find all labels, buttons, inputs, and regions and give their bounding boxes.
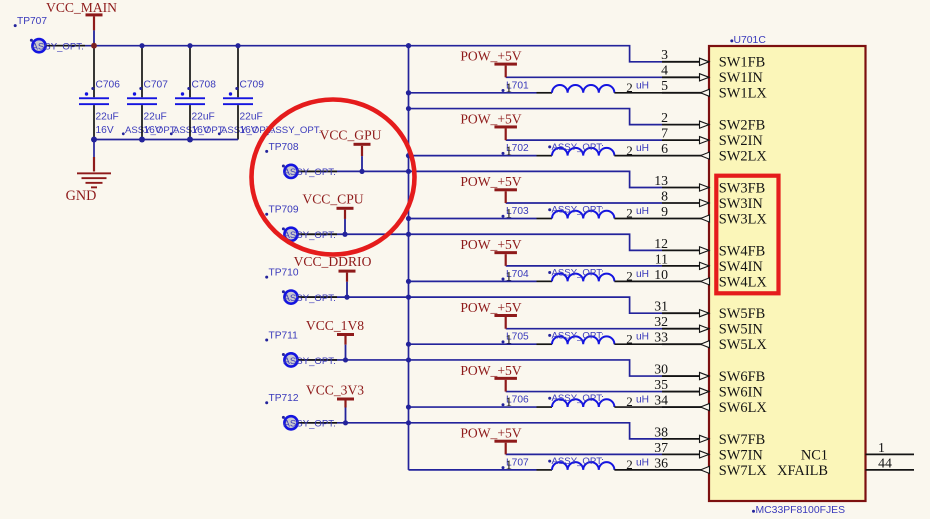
svg-text:7: 7 xyxy=(661,126,668,141)
svg-text:SW3FB: SW3FB xyxy=(719,180,765,196)
svg-text:33: 33 xyxy=(654,330,668,345)
svg-text:22uF: 22uF xyxy=(240,112,263,123)
svg-text:SW3LX: SW3LX xyxy=(719,211,768,227)
svg-text:TP710: TP710 xyxy=(269,268,299,279)
svg-text:22uF: 22uF xyxy=(192,112,215,123)
svg-text:12: 12 xyxy=(654,236,668,251)
svg-text:10: 10 xyxy=(654,267,668,282)
svg-text:ASSY_OPT:: ASSY_OPT: xyxy=(552,330,604,341)
svg-text:1: 1 xyxy=(506,206,513,221)
svg-text:uH: uH xyxy=(636,395,649,406)
svg-text:TP707: TP707 xyxy=(17,16,47,27)
svg-text:SW7FB: SW7FB xyxy=(719,432,765,448)
svg-text:32: 32 xyxy=(654,314,668,329)
svg-text:uH: uH xyxy=(636,206,649,217)
svg-text:8: 8 xyxy=(661,188,668,203)
svg-text:POW_+5V: POW_+5V xyxy=(460,237,521,252)
svg-text:36: 36 xyxy=(654,455,668,470)
svg-text:SW6IN: SW6IN xyxy=(719,384,764,400)
svg-text:SW5LX: SW5LX xyxy=(719,337,768,353)
svg-text:2: 2 xyxy=(626,268,633,283)
svg-text:1: 1 xyxy=(506,331,513,346)
svg-text:POW_+5V: POW_+5V xyxy=(460,300,521,315)
svg-text:ASSY_OPT:: ASSY_OPT: xyxy=(552,393,604,404)
svg-text:ASSY_OPT:: ASSY_OPT: xyxy=(552,267,604,278)
svg-text:SW1FB: SW1FB xyxy=(719,55,765,71)
svg-text:SW3IN: SW3IN xyxy=(719,196,764,212)
svg-text:SW2FB: SW2FB xyxy=(719,118,765,134)
svg-text:4: 4 xyxy=(661,63,668,78)
svg-text:SW5IN: SW5IN xyxy=(719,322,764,338)
svg-text:1: 1 xyxy=(506,394,513,409)
svg-text:22uF: 22uF xyxy=(96,112,119,123)
svg-text:16V: 16V xyxy=(96,125,114,136)
svg-text:16V: 16V xyxy=(240,125,258,136)
svg-text:uH: uH xyxy=(636,332,649,343)
svg-text:SW7LX: SW7LX xyxy=(719,463,768,479)
svg-text:9: 9 xyxy=(661,204,668,219)
svg-text:SW4LX: SW4LX xyxy=(719,274,768,290)
svg-text:ASSY_OPT.: ASSY_OPT. xyxy=(284,293,336,304)
svg-text:SW7IN: SW7IN xyxy=(719,447,764,463)
svg-text:VCC_GPU: VCC_GPU xyxy=(320,128,382,143)
svg-text:16V: 16V xyxy=(192,125,210,136)
svg-text:C709: C709 xyxy=(240,80,265,91)
svg-text:2: 2 xyxy=(626,394,633,409)
svg-text:SW5FB: SW5FB xyxy=(719,306,765,322)
svg-text:ASSY_OPT.: ASSY_OPT. xyxy=(284,230,336,241)
svg-text:SW6LX: SW6LX xyxy=(719,400,768,416)
svg-text:uH: uH xyxy=(636,457,649,468)
svg-text:SW1IN: SW1IN xyxy=(719,70,764,86)
svg-text:POW_+5V: POW_+5V xyxy=(460,426,521,441)
svg-text:6: 6 xyxy=(661,141,668,156)
svg-text:NC1: NC1 xyxy=(801,447,828,463)
svg-text:34: 34 xyxy=(654,392,668,407)
svg-text:30: 30 xyxy=(654,361,668,376)
svg-text:2: 2 xyxy=(626,206,633,221)
svg-text:22uF: 22uF xyxy=(144,112,167,123)
svg-text:SW4IN: SW4IN xyxy=(719,259,764,275)
svg-text:U701C: U701C xyxy=(734,35,767,46)
svg-text:ASSY_OPT.: ASSY_OPT. xyxy=(269,125,321,136)
svg-text:POW_+5V: POW_+5V xyxy=(460,49,521,64)
svg-text:VCC_CPU: VCC_CPU xyxy=(302,191,363,206)
svg-text:13: 13 xyxy=(654,173,668,188)
svg-text:POW_+5V: POW_+5V xyxy=(460,363,521,378)
svg-text:16V: 16V xyxy=(144,125,162,136)
svg-text:SW4FB: SW4FB xyxy=(719,243,765,259)
svg-text:uH: uH xyxy=(636,269,649,280)
svg-text:ASSY_OPT.: ASSY_OPT. xyxy=(32,42,84,53)
svg-text:1: 1 xyxy=(878,440,885,455)
svg-text:POW_+5V: POW_+5V xyxy=(460,174,521,189)
svg-text:VCC_1V8: VCC_1V8 xyxy=(306,318,364,333)
svg-text:ASSY_OPT:: ASSY_OPT: xyxy=(552,456,604,467)
svg-text:MC33PF8100FJES: MC33PF8100FJES xyxy=(756,505,846,516)
svg-text:2: 2 xyxy=(626,80,633,95)
svg-text:uH: uH xyxy=(636,143,649,154)
svg-text:5: 5 xyxy=(661,78,668,93)
svg-text:ASSY_OPT.: ASSY_OPT. xyxy=(284,419,336,430)
svg-text:SW2IN: SW2IN xyxy=(719,133,764,149)
svg-text:uH: uH xyxy=(636,80,649,91)
svg-text:44: 44 xyxy=(878,455,892,470)
svg-text:C708: C708 xyxy=(192,80,217,91)
svg-text:GND: GND xyxy=(66,188,97,204)
svg-text:POW_+5V: POW_+5V xyxy=(460,111,521,126)
svg-text:11: 11 xyxy=(655,251,668,266)
svg-text:TP708: TP708 xyxy=(269,142,299,153)
svg-text:ASSY_OPT.: ASSY_OPT. xyxy=(284,356,336,367)
svg-text:3: 3 xyxy=(661,47,668,62)
svg-text:1: 1 xyxy=(506,457,513,472)
svg-text:37: 37 xyxy=(654,440,668,455)
svg-text:1: 1 xyxy=(506,143,513,158)
svg-text:2: 2 xyxy=(661,110,668,125)
svg-text:31: 31 xyxy=(654,299,668,314)
svg-text:1: 1 xyxy=(506,80,513,95)
svg-text:TP711: TP711 xyxy=(269,330,299,341)
svg-text:1: 1 xyxy=(506,268,513,283)
svg-text:VCC_3V3: VCC_3V3 xyxy=(306,382,364,397)
svg-text:ASSY_OPT:: ASSY_OPT: xyxy=(552,142,604,153)
svg-text:VCC_MAIN: VCC_MAIN xyxy=(46,0,117,15)
svg-text:C707: C707 xyxy=(144,80,169,91)
svg-text:SW6FB: SW6FB xyxy=(719,369,765,385)
svg-text:2: 2 xyxy=(626,331,633,346)
svg-text:2: 2 xyxy=(626,143,633,158)
svg-text:XFAILB: XFAILB xyxy=(777,463,828,479)
svg-text:TP709: TP709 xyxy=(269,205,299,216)
svg-text:2: 2 xyxy=(626,457,633,472)
svg-text:SW1LX: SW1LX xyxy=(719,86,768,102)
svg-text:C706: C706 xyxy=(96,80,121,91)
svg-text:ASSY_OPT.: ASSY_OPT. xyxy=(284,167,336,178)
svg-text:38: 38 xyxy=(654,424,668,439)
svg-text:SW2LX: SW2LX xyxy=(719,149,768,165)
svg-text:35: 35 xyxy=(654,377,668,392)
svg-text:ASSY_OPT:: ASSY_OPT: xyxy=(552,205,604,216)
svg-text:TP712: TP712 xyxy=(269,393,299,404)
